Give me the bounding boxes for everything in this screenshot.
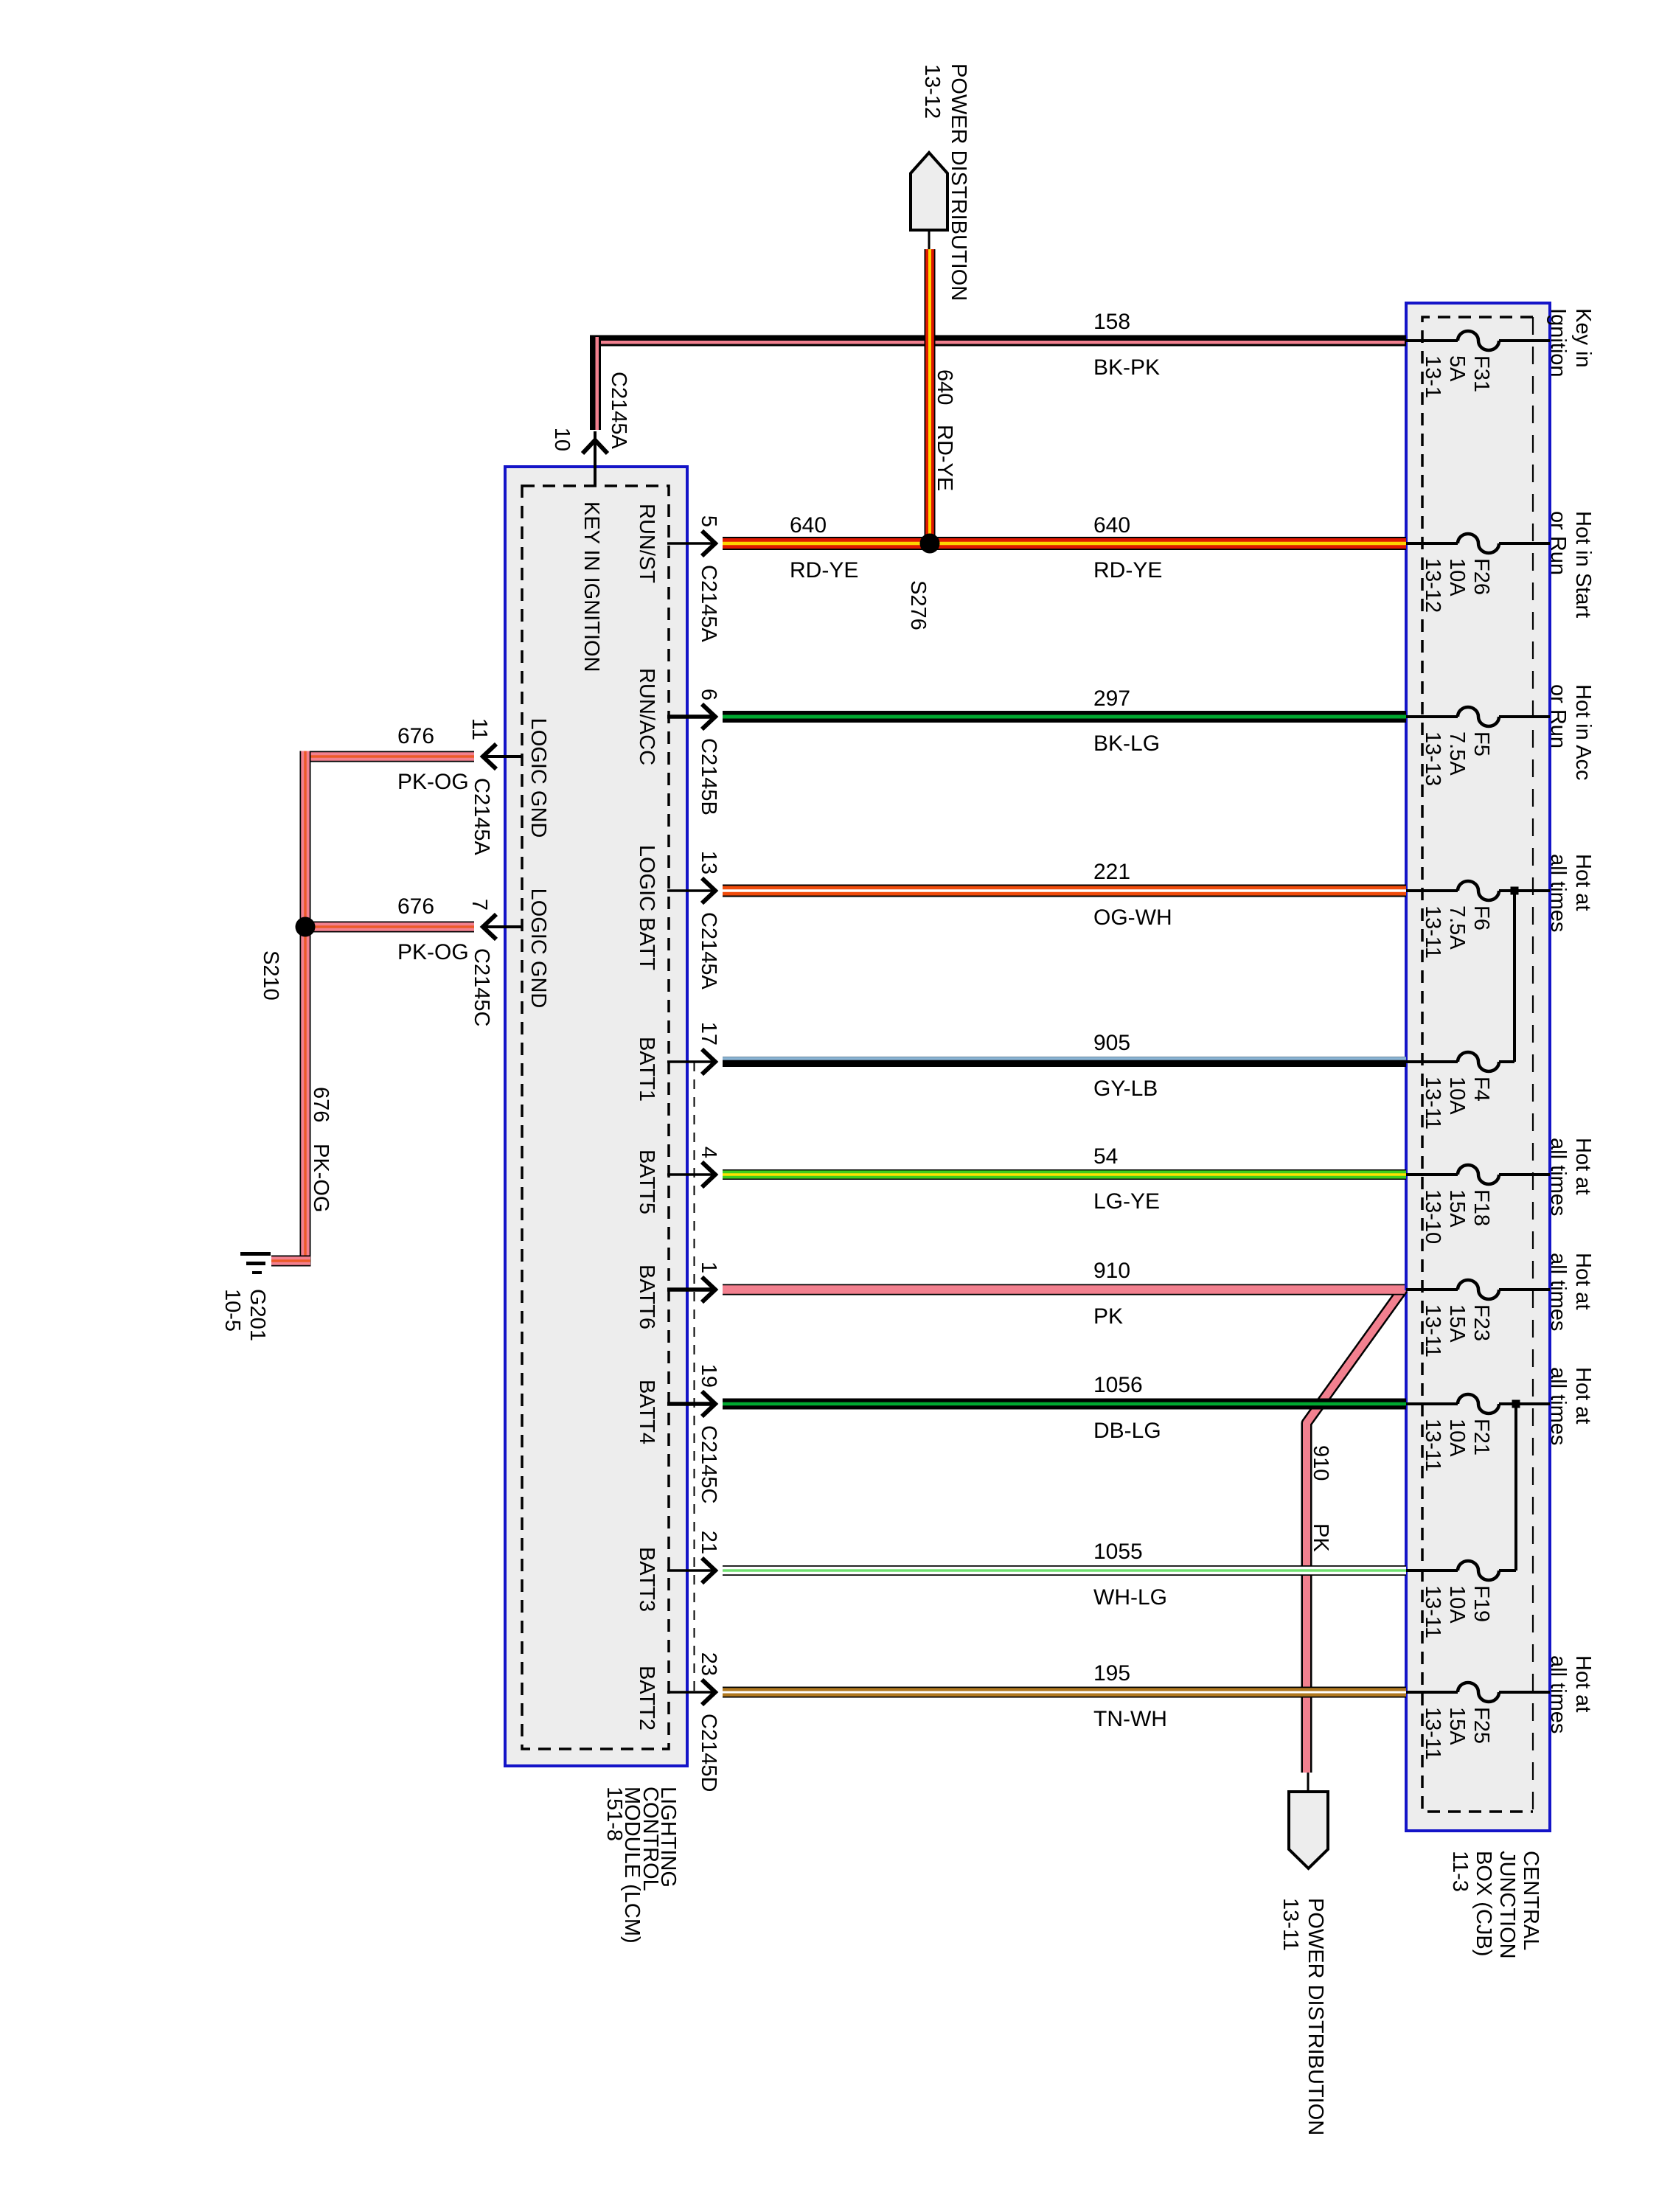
fuse label F26 10A 13-12 (1421, 558, 1493, 613)
ground G201 symbol (240, 1252, 271, 1274)
svg-text:Hot at: Hot at (1571, 854, 1595, 911)
pin 4 connector arrow (702, 1162, 715, 1187)
fuse F23 (1458, 1280, 1499, 1299)
svg-text:195: 195 (1093, 1661, 1130, 1686)
svg-text:13-12: 13-12 (920, 64, 944, 119)
stub from power distribution arrow (928, 230, 931, 251)
svg-text:F4: F4 (1470, 1077, 1493, 1102)
svg-text:C2145A: C2145A (697, 565, 720, 642)
supply label Hot at all times at y=1593 (1546, 1138, 1595, 1216)
pin 23 connector arrow (702, 1680, 715, 1705)
svg-text:or Run: or Run (1546, 511, 1570, 575)
svg-text:13-11: 13-11 (1421, 1585, 1444, 1638)
wire 158 BK-PK (590, 335, 1406, 431)
svg-text:Hot at: Hot at (1571, 1253, 1595, 1310)
svg-text:G201: G201 (246, 1289, 269, 1341)
svg-text:13-11: 13-11 (1421, 1304, 1444, 1357)
svg-text:10A: 10A (1445, 1585, 1469, 1624)
wire 195 TN-WH (723, 1687, 1406, 1698)
bus from F6 to F4 (1513, 891, 1516, 1062)
bus junction at F6 (1511, 887, 1519, 895)
svg-text:640: 640 (790, 513, 827, 538)
svg-text:PK: PK (1093, 1304, 1123, 1329)
svg-text:7.5A: 7.5A (1445, 905, 1469, 950)
pin 17 connector arrow (702, 1049, 715, 1074)
svg-text:C2145D: C2145D (697, 1714, 720, 1792)
central junction box CJB outline (1406, 303, 1550, 1831)
svg-text:Key in: Key in (1571, 308, 1595, 368)
pin 17 stub (667, 1060, 714, 1063)
svg-text:all times: all times (1546, 854, 1570, 932)
svg-text:10A: 10A (1445, 1419, 1469, 1457)
svg-text:BATT3: BATT3 (635, 1547, 658, 1612)
fuse label F18 15A 13-10 (1421, 1189, 1493, 1244)
label 676 PK-OG upper (397, 724, 469, 794)
svg-text:640: 640 (933, 369, 956, 405)
svg-text:PK: PK (1309, 1523, 1332, 1552)
fuse label F4 10A 13-11 (1421, 1077, 1493, 1130)
fuse label F25 15A 13-11 (1421, 1707, 1493, 1760)
label 640 RD-YE right segment (1093, 513, 1162, 582)
svg-text:all times: all times (1546, 1367, 1570, 1445)
fuse F26 output line (1499, 542, 1550, 545)
svg-text:1055: 1055 (1093, 1540, 1143, 1564)
fuse F25 output line (1499, 1691, 1550, 1694)
label 676 PK-OG lower (397, 894, 469, 964)
fuse F31 input line (1406, 339, 1458, 342)
svg-text:676: 676 (397, 724, 434, 748)
svg-text:all times: all times (1546, 1138, 1570, 1216)
svg-text:PK-OG: PK-OG (397, 770, 469, 794)
svg-text:F18: F18 (1470, 1189, 1493, 1226)
power distribution 13-12 off-page arrow (911, 153, 947, 230)
wire 221 OG-WH (723, 885, 1406, 897)
svg-text:13-13: 13-13 (1421, 731, 1444, 786)
svg-text:JUNCTION: JUNCTION (1495, 1851, 1519, 1959)
svg-text:all times: all times (1546, 1253, 1570, 1331)
svg-text:BATT5: BATT5 (635, 1150, 658, 1214)
CJB inner dashed border (1422, 317, 1533, 1812)
svg-text:F21: F21 (1470, 1419, 1493, 1455)
label 1055 WH-LG (1093, 1540, 1167, 1610)
svg-text:13-10: 13-10 (1421, 1189, 1444, 1244)
svg-text:S210: S210 (259, 950, 282, 1001)
fuse F21 input line (1406, 1402, 1458, 1405)
supply label Hot at all times at y=1904 (1546, 1367, 1595, 1445)
fuse F5 output line (1499, 715, 1550, 718)
svg-text:Hot at: Hot at (1571, 1655, 1595, 1712)
svg-text:7.5A: 7.5A (1445, 731, 1469, 776)
svg-text:11-3: 11-3 (1448, 1851, 1472, 1892)
wire 676 PK-OG ground segment (271, 1256, 310, 1267)
fuse F5 (1458, 707, 1499, 726)
module label LIGHTING CONTROL MODULE (LCM) 151-8 (602, 1787, 680, 1944)
label G201 10-5 (220, 1289, 269, 1341)
svg-text:15A: 15A (1445, 1189, 1469, 1228)
svg-text:676: 676 (309, 1087, 333, 1122)
label 910 PK vertical (1309, 1445, 1332, 1552)
pin 13 connector arrow (702, 878, 715, 903)
fuse F26 input line (1406, 542, 1458, 545)
svg-text:C2145A: C2145A (470, 778, 493, 855)
svg-text:C2145A: C2145A (607, 372, 630, 449)
pin 7 connector arrow (483, 914, 496, 939)
wire 676 PK-OG pin 11 segment (300, 751, 474, 762)
wire 910 PK branch to power distribution (1307, 1289, 1403, 1773)
fuse F4 output line (1499, 1060, 1514, 1063)
supply label Hot in Acc or Run at y=972 (1546, 684, 1595, 781)
svg-text:RD-YE: RD-YE (1093, 558, 1162, 582)
label 910 PK (1093, 1259, 1130, 1329)
svg-text:BK-PK: BK-PK (1093, 355, 1160, 380)
svg-text:1: 1 (697, 1262, 720, 1273)
fuse label F5 7.5A 13-13 (1421, 731, 1493, 786)
pin 19 stub (667, 1402, 714, 1406)
svg-text:910: 910 (1309, 1445, 1332, 1481)
fuse F31 (1458, 331, 1499, 350)
power distribution 13-11 off-page arrow (1289, 1792, 1328, 1868)
label 158 BK-PK (1093, 310, 1160, 380)
supply label Key in Ignition at y=462 (1546, 308, 1595, 378)
fuse label F31 5A 13-1 (1421, 355, 1493, 398)
svg-text:BATT4: BATT4 (635, 1380, 658, 1444)
svg-text:13-1: 13-1 (1421, 355, 1444, 398)
svg-text:LOGIC GND: LOGIC GND (526, 888, 550, 1009)
svg-text:GY-LB: GY-LB (1093, 1077, 1158, 1101)
label 221 OG-WH (1093, 860, 1172, 930)
fuse F6 input line (1406, 889, 1458, 892)
svg-text:F23: F23 (1470, 1304, 1493, 1341)
fuse F23 input line (1406, 1288, 1458, 1291)
fuse F19 (1458, 1561, 1499, 1580)
svg-text:13: 13 (697, 851, 720, 874)
svg-text:RD-YE: RD-YE (790, 558, 858, 582)
svg-text:POWER DISTRIBUTION: POWER DISTRIBUTION (1304, 1898, 1327, 2135)
label 640 RD-YE vertical (933, 369, 956, 491)
svg-text:13-11: 13-11 (1279, 1898, 1302, 1951)
label 195 TN-WH (1093, 1661, 1167, 1731)
svg-text:S276: S276 (906, 580, 930, 630)
svg-text:23: 23 (697, 1652, 720, 1676)
svg-text:297: 297 (1093, 686, 1130, 711)
svg-text:151-8: 151-8 (602, 1787, 626, 1841)
pin 11 stub (484, 755, 523, 758)
bus from F21 to F19 (1514, 1404, 1517, 1571)
svg-text:KEY IN IGNITION: KEY IN IGNITION (580, 501, 603, 672)
svg-text:640: 640 (1093, 513, 1130, 538)
wire 640 RD-YE (723, 537, 1406, 550)
svg-text:15A: 15A (1445, 1707, 1469, 1745)
svg-text:Hot at: Hot at (1571, 1138, 1595, 1194)
fuse F4 (1458, 1052, 1499, 1071)
svg-text:F26: F26 (1470, 558, 1493, 595)
svg-text:10A: 10A (1445, 1077, 1469, 1115)
svg-text:13-11: 13-11 (1421, 905, 1444, 959)
svg-text:F31: F31 (1470, 355, 1493, 392)
module LCM box outline (505, 467, 687, 1766)
pin 4 stub (667, 1173, 714, 1176)
svg-text:6: 6 (697, 689, 720, 700)
pin 6 stub (667, 714, 714, 719)
fuse F21 output line (1499, 1402, 1550, 1405)
pin 1 connector arrow (702, 1277, 715, 1302)
svg-text:676: 676 (397, 894, 434, 919)
svg-text:1056: 1056 (1093, 1373, 1143, 1397)
supply label Hot in Start or Run at y=737 (1546, 511, 1595, 618)
svg-text:4: 4 (697, 1147, 720, 1158)
svg-text:Hot in Acc: Hot in Acc (1571, 684, 1595, 781)
supply label Hot at all times at y=1208 (1546, 854, 1595, 932)
svg-text:OG-WH: OG-WH (1093, 905, 1172, 930)
pin 5 connector arrow (702, 531, 715, 556)
svg-text:PK-OG: PK-OG (309, 1144, 333, 1212)
svg-text:10A: 10A (1445, 558, 1469, 597)
fuse F19 input line (1406, 1569, 1458, 1572)
svg-text:TN-WH: TN-WH (1093, 1707, 1167, 1731)
svg-text:F19: F19 (1470, 1585, 1493, 1622)
wire 1055 WH-LG (723, 1565, 1406, 1576)
svg-text:BOX (CJB): BOX (CJB) (1472, 1851, 1495, 1956)
svg-text:13-11: 13-11 (1421, 1707, 1444, 1760)
bus junction at F21 (1512, 1400, 1520, 1408)
label POWER DISTRIBUTION 13-12 (920, 63, 970, 301)
svg-text:WH-LG: WH-LG (1093, 1585, 1167, 1610)
fuse label F23 15A 13-11 (1421, 1304, 1493, 1357)
svg-text:10: 10 (550, 428, 574, 451)
pin 5 stub (667, 542, 714, 545)
svg-text:RUN/ST: RUN/ST (635, 504, 658, 583)
pin 11 connector arrow (483, 744, 496, 769)
svg-text:BATT2: BATT2 (635, 1666, 658, 1731)
label 297 BK-LG (1093, 686, 1160, 756)
label 905 GY-LB (1093, 1031, 1158, 1101)
svg-text:21: 21 (697, 1531, 720, 1554)
wire 910 PK (723, 1284, 1405, 1295)
fuse F18 output line (1499, 1173, 1550, 1176)
fuse F31 output line (1499, 339, 1550, 342)
svg-text:13-11: 13-11 (1421, 1077, 1444, 1130)
pin 10 stub (594, 431, 597, 487)
svg-text:5A: 5A (1445, 355, 1469, 382)
svg-text:7: 7 (467, 899, 491, 911)
pin 23 stub (667, 1691, 714, 1694)
fuse F25 input line (1406, 1691, 1458, 1694)
svg-text:PK-OG: PK-OG (397, 940, 469, 964)
pin 13 stub (667, 889, 714, 892)
svg-text:19: 19 (697, 1364, 720, 1388)
svg-text:5: 5 (697, 515, 720, 527)
label 1056 DB-LG (1093, 1373, 1161, 1443)
svg-text:17: 17 (697, 1022, 720, 1046)
wire 297 BK-LG (723, 711, 1406, 723)
svg-text:C2145C: C2145C (470, 948, 493, 1026)
fuse F18 (1458, 1165, 1499, 1184)
svg-text:910: 910 (1093, 1259, 1130, 1283)
svg-text:BATT1: BATT1 (635, 1037, 658, 1102)
svg-text:DB-LG: DB-LG (1093, 1419, 1161, 1443)
supply label Hot at all times at y=1749 (1546, 1253, 1595, 1331)
svg-text:BATT6: BATT6 (635, 1265, 658, 1329)
svg-text:158: 158 (1093, 310, 1130, 334)
fuse F6 output line (1499, 889, 1550, 892)
svg-text:CENTRAL: CENTRAL (1519, 1851, 1543, 1950)
svg-text:C2145C: C2145C (697, 1425, 720, 1503)
label CENTRAL JUNCTION BOX (CJB) 11-3 (1448, 1851, 1543, 1959)
svg-text:all times: all times (1546, 1655, 1570, 1733)
fuse F18 input line (1406, 1173, 1458, 1176)
svg-text:13-12: 13-12 (1421, 558, 1444, 613)
svg-text:LOGIC BATT: LOGIC BATT (635, 845, 658, 971)
splice S210 (296, 917, 316, 937)
fuse F26 (1458, 534, 1499, 553)
fuse F23 output line (1499, 1288, 1550, 1291)
svg-text:15A: 15A (1445, 1304, 1469, 1343)
svg-text:Ignition: Ignition (1546, 308, 1570, 378)
svg-text:or Run: or Run (1546, 684, 1570, 748)
fuse label F21 10A 13-11 (1421, 1419, 1493, 1472)
label 676 PK-OG vertical (309, 1087, 333, 1212)
fuse F4 input line (1406, 1060, 1458, 1063)
svg-text:F25: F25 (1470, 1707, 1493, 1744)
fuse F19 output line (1499, 1569, 1516, 1572)
fuse label F6 7.5A 13-11 (1421, 905, 1493, 959)
svg-text:C2145B: C2145B (697, 738, 720, 815)
module LCM inner dashed border (522, 486, 669, 1749)
wire 676 PK-OG pin 7 segment (300, 922, 474, 933)
svg-text:F5: F5 (1470, 731, 1493, 757)
svg-text:10-5: 10-5 (220, 1289, 244, 1332)
splice S276 (920, 534, 940, 554)
fuse label F19 10A 13-11 (1421, 1585, 1493, 1638)
svg-text:905: 905 (1093, 1031, 1130, 1055)
svg-text:LOGIC GND: LOGIC GND (526, 718, 550, 838)
fuse F6 (1458, 881, 1499, 900)
label 54 LG-YE (1093, 1144, 1160, 1214)
svg-text:Hot at: Hot at (1571, 1367, 1595, 1424)
pin 19 connector arrow (702, 1391, 715, 1416)
svg-text:54: 54 (1093, 1144, 1118, 1169)
wire 640 RD-YE vertical from power distribution (925, 249, 936, 543)
pin 6 connector arrow (702, 704, 715, 729)
pin 21 connector arrow (702, 1558, 715, 1583)
connector C2145 dashed line (694, 1062, 695, 1692)
svg-text:LG-YE: LG-YE (1093, 1189, 1160, 1214)
pin 10 connector arrow (582, 440, 608, 453)
svg-text:221: 221 (1093, 860, 1130, 884)
supply label Hot at all times at y=2295 (1546, 1655, 1595, 1733)
svg-text:F6: F6 (1470, 905, 1493, 931)
svg-text:POWER DISTRIBUTION: POWER DISTRIBUTION (947, 63, 970, 301)
fuse F5 input line (1406, 715, 1458, 718)
pin 1 stub (667, 1287, 714, 1292)
svg-text:RD-YE: RD-YE (933, 425, 956, 491)
fuse F25 (1458, 1683, 1499, 1702)
pin 7 stub (484, 925, 523, 928)
svg-text:C2145A: C2145A (697, 912, 720, 990)
wire 54 LG-YE (723, 1169, 1406, 1180)
wire 1056 DB-LG (723, 1399, 1406, 1410)
svg-text:11: 11 (467, 718, 491, 740)
label 640 RD-YE left segment (790, 513, 858, 582)
svg-text:Hot in Start: Hot in Start (1571, 511, 1595, 618)
wire 676 PK-OG vertical to ground (300, 751, 311, 1267)
svg-text:RUN/ACC: RUN/ACC (635, 668, 658, 765)
wire 905 GY-LB (723, 1057, 1406, 1067)
pin 21 stub (667, 1569, 714, 1572)
svg-text:13-11: 13-11 (1421, 1419, 1444, 1472)
label POWER DISTRIBUTION 13-11 (1279, 1898, 1327, 2135)
fuse F21 (1458, 1394, 1499, 1413)
svg-text:BK-LG: BK-LG (1093, 731, 1160, 756)
stub to power distribution 13-11 arrow (1307, 1773, 1310, 1792)
